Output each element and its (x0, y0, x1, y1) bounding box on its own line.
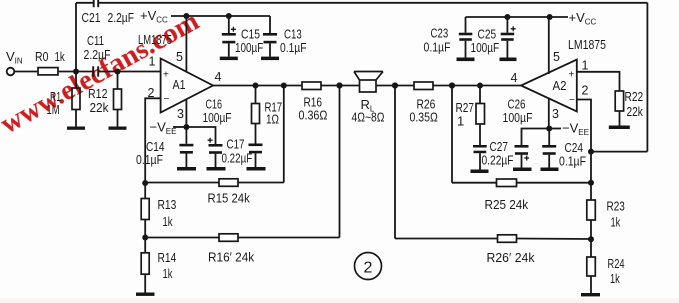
svg-text:3: 3 (552, 107, 559, 121)
capacitor C13 (269, 16, 271, 33)
svg-text:R14: R14 (158, 250, 177, 265)
capacitor C23 plates (459, 33, 473, 36)
svg-text:0.22µF: 0.22µF (222, 151, 253, 166)
svg-text:R23: R23 (607, 199, 625, 214)
ground C27 (471, 170, 489, 174)
capacitor C17 (255, 153, 257, 167)
capacitor plates and grounds (filled) (67, 33, 630, 297)
svg-text:2.2µF: 2.2µF (84, 47, 111, 62)
wire feedback A1 output drop (283, 86, 285, 183)
resistor R25 (497, 179, 517, 187)
resistor R16p (219, 234, 238, 242)
wire +Vcc right rail (466, 16, 569, 18)
plus C25 (511, 26, 516, 31)
capacitor C17 plates (249, 144, 263, 147)
resistor R14 (144, 238, 146, 253)
wire R25 rail right (517, 182, 592, 184)
svg-text:LM1875: LM1875 (568, 37, 606, 52)
svg-text:100µF: 100µF (203, 110, 232, 125)
ground R22 (609, 126, 630, 130)
wire speaker right drop (394, 86, 396, 239)
node R23-R24 (588, 236, 594, 242)
svg-text:1k: 1k (163, 266, 173, 281)
svg-text:C21: C21 (82, 10, 101, 25)
svg-text:0.36Ω: 0.36Ω (299, 108, 328, 123)
svg-text:R0: R0 (35, 49, 49, 64)
wire pin3 A2 (548, 99, 550, 129)
resistor R1 (75, 72, 77, 89)
svg-text:4Ω~8Ω: 4Ω~8Ω (352, 110, 385, 125)
wire input node up to C21 (75, 3, 77, 72)
node -VEE A2 (546, 126, 552, 132)
svg-text:R24: R24 (608, 256, 625, 271)
svg-text:4: 4 (215, 70, 222, 84)
wire pin3 A1 (185, 100, 187, 127)
resistor R24 (590, 239, 592, 257)
wire +Vcc left rail (171, 15, 270, 17)
capacitor C26 (522, 129, 550, 146)
svg-text:1M: 1M (47, 102, 60, 117)
capacitor C24 (548, 129, 550, 146)
wire pin5 A2 (548, 17, 550, 74)
node C11-R12 (115, 69, 121, 75)
resistor R13 (144, 183, 146, 199)
ground R12 (109, 127, 127, 130)
node input-R1 (73, 69, 79, 75)
svg-text:0.1µF: 0.1µF (424, 40, 451, 55)
speaker RL (360, 80, 377, 92)
capacitor C21 (94, 0, 99, 7)
svg-text:R13: R13 (158, 197, 177, 212)
input terminal VIN (7, 68, 15, 76)
node R25-R23 (588, 180, 594, 186)
svg-text:A1: A1 (173, 77, 186, 92)
wire R16p rail left (145, 237, 219, 239)
wire -VEE right dash (549, 128, 561, 130)
node -VEE A1 (183, 124, 189, 130)
svg-text:C17: C17 (227, 137, 245, 152)
ground C13 (261, 57, 279, 61)
wire R26p rail left (395, 238, 498, 240)
svg-text:100µF: 100µF (235, 40, 263, 55)
svg-text:R12: R12 (88, 86, 108, 101)
resistor R15 (219, 179, 238, 187)
plus C15 (231, 27, 236, 32)
op-amp A1 (161, 59, 213, 113)
capacitor C15 plates (222, 33, 236, 36)
node R27 top (477, 83, 483, 89)
capacitor C16 (186, 127, 215, 144)
wire -VEE left dash (173, 126, 186, 128)
node R13 top (142, 180, 148, 186)
svg-text:22k: 22k (90, 100, 109, 115)
resistor R17 (255, 86, 257, 104)
capacitor C24 plates (542, 145, 556, 148)
capacitor C27 (479, 153, 481, 169)
svg-text:0.1µF: 0.1µF (559, 154, 586, 169)
node +Vcc pin5 A1 (183, 13, 189, 19)
svg-text:LM1875: LM1875 (138, 32, 172, 47)
capacitor C14 plates (179, 144, 193, 147)
node C15 (226, 13, 232, 19)
ground C15 (220, 57, 238, 61)
svg-text:−: − (164, 94, 170, 105)
node speaker left (336, 82, 342, 88)
wire top bootstrap left segment (76, 2, 94, 4)
wire R0 to C11 (58, 71, 93, 73)
polarity plus marks (208, 26, 530, 160)
wire R16 to speaker (321, 85, 360, 87)
wire R16p rail right (238, 237, 340, 239)
svg-text:2.2µF: 2.2µF (108, 10, 135, 25)
wire pin1 A2 to R22 (577, 72, 620, 91)
wire right bootstrap drop (646, 3, 648, 152)
svg-text:A2: A2 (553, 78, 567, 93)
capacitor C25 plates (501, 33, 515, 36)
svg-text:5: 5 (553, 50, 560, 64)
wire speaker to R26 (376, 85, 414, 87)
ground C17 (247, 167, 266, 171)
wire R15 rail left (145, 182, 219, 184)
wire A1 output line (213, 85, 302, 87)
node speaker right (392, 82, 398, 88)
svg-text:C11: C11 (87, 33, 104, 48)
svg-text:1: 1 (582, 59, 589, 73)
ground C16 (207, 167, 226, 171)
node dots (73, 13, 594, 242)
node R13-R14 (142, 235, 148, 241)
svg-text:+: + (163, 70, 169, 81)
wire pin2 stub A1 (145, 98, 160, 183)
svg-text:C23: C23 (431, 26, 449, 41)
ground C25 (500, 58, 517, 62)
resistor R26 (414, 82, 433, 90)
capacitor C26 plates (515, 145, 529, 148)
ground R14 (136, 293, 155, 296)
svg-text:R16′ 24k: R16′ 24k (208, 250, 255, 265)
ground R1 (67, 127, 85, 130)
wire R26p rail right (517, 238, 592, 241)
svg-text:1k: 1k (611, 215, 621, 230)
plus C16 (208, 138, 213, 143)
resistor R23 (590, 183, 592, 200)
capacitor C16 plates (209, 144, 223, 147)
svg-text:R22: R22 (625, 89, 644, 104)
svg-text:0.1µF: 0.1µF (136, 152, 163, 167)
svg-text:0.1µF: 0.1µF (280, 40, 307, 55)
wire input to R0 (15, 71, 38, 73)
capacitor C11 (93, 66, 98, 76)
svg-text:22k: 22k (627, 104, 644, 119)
ground C14 (177, 167, 196, 171)
node bootstrap pin2 A2 (588, 149, 594, 155)
svg-text:4: 4 (511, 71, 518, 85)
svg-text:+: + (569, 70, 575, 81)
wire R25 rail left (452, 182, 497, 184)
svg-text:2: 2 (582, 84, 589, 98)
svg-text:R26′ 24k: R26′ 24k (487, 250, 535, 265)
svg-text:2: 2 (148, 86, 155, 100)
op-amp A2 (521, 60, 577, 112)
ground R24 (581, 293, 600, 296)
node feedback drop (281, 83, 287, 89)
svg-text:3: 3 (177, 107, 184, 121)
node +Vcc pin5 A2 (547, 14, 553, 20)
wire C11 to pin1 of A1 (98, 71, 160, 73)
svg-text:100µF: 100µF (503, 110, 533, 125)
resistor R26p (498, 235, 517, 243)
svg-text:R25 24k: R25 24k (485, 197, 529, 212)
svg-text:0.35Ω: 0.35Ω (410, 110, 439, 125)
capacitor C14 (185, 127, 187, 144)
svg-text:−: − (569, 95, 575, 106)
node R17 top (253, 83, 259, 89)
svg-text:1: 1 (457, 114, 464, 129)
svg-text:1k: 1k (610, 271, 620, 286)
svg-text:1k: 1k (163, 214, 173, 229)
svg-text:1: 1 (149, 55, 156, 69)
capacitor C23 (465, 17, 467, 33)
svg-text:2: 2 (364, 260, 373, 277)
svg-text:0.22µF: 0.22µF (482, 153, 514, 168)
wire A2 output drop to R25 (451, 86, 453, 183)
resistor R0 (38, 68, 58, 75)
wire pin2 A2 drop (577, 100, 591, 183)
ground C23 (457, 58, 475, 62)
svg-text:1Ω: 1Ω (266, 112, 279, 127)
resistor R22 (615, 91, 623, 111)
node R25 drop (449, 82, 455, 88)
capacitor C15 (228, 16, 230, 33)
ground C24 (541, 168, 559, 172)
ground C26 (513, 168, 532, 172)
svg-text:100µF: 100µF (471, 40, 500, 55)
resistor R12 (117, 72, 119, 90)
wire speaker left drop (339, 86, 341, 238)
label circle 2 (355, 253, 382, 280)
node C25 (504, 14, 510, 20)
capacitor C27 plates (473, 145, 487, 148)
wire R15 rail right (238, 182, 284, 184)
svg-text:R15 24k: R15 24k (208, 191, 251, 206)
capacitor C13 plates (263, 33, 277, 36)
wire bootstrap to pin2 node of A2 (591, 151, 647, 153)
plus C26 (524, 156, 529, 161)
wire top bootstrap main run (98, 2, 647, 4)
wire pin5 A1 (185, 16, 187, 71)
resistor R27 (479, 86, 481, 104)
resistor R16 (302, 82, 321, 90)
capacitor C25 (506, 17, 508, 33)
wire R26 to A2 (433, 85, 521, 87)
svg-text:1k: 1k (55, 49, 66, 64)
svg-text:5: 5 (176, 50, 183, 64)
bottom pink band (0, 299, 679, 303)
